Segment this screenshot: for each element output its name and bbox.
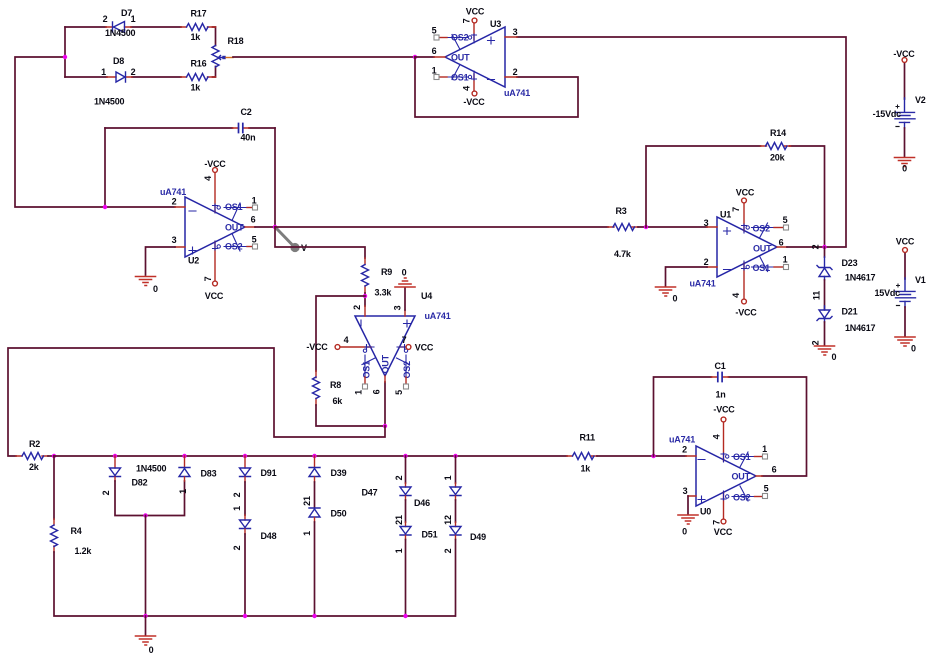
node junction at (105,207) <box>103 205 107 209</box>
ground 0 below V1 <box>895 337 916 354</box>
svg-text:21: 21 <box>394 515 404 525</box>
svg-text:1: 1 <box>101 67 106 77</box>
svg-text:2: 2 <box>352 305 362 310</box>
wire: D39 to D50 <box>314 482 316 508</box>
svg-text:R3: R3 <box>616 206 627 216</box>
svg-text:-VCC: -VCC <box>463 97 485 107</box>
svg-text:-VCC: -VCC <box>204 159 226 169</box>
svg-text:20k: 20k <box>770 153 786 163</box>
power VCC at U1 pin7 <box>731 188 755 234</box>
wire: D21 to ground <box>824 322 826 345</box>
svg-text:D49: D49 <box>470 532 486 542</box>
svg-text:D91: D91 <box>261 468 277 478</box>
svg-text:3.3k: 3.3k <box>375 288 393 298</box>
svg-text:VCC: VCC <box>205 291 224 301</box>
power -VCC at U1 pin4 <box>731 261 757 318</box>
resistor R17 <box>181 9 216 43</box>
wire: U2 pin3 to ground <box>146 247 176 275</box>
wire: junction vertical D7/D8 branches <box>64 27 66 77</box>
resistor R11 <box>567 433 597 474</box>
svg-text:D82: D82 <box>132 478 148 488</box>
diode D48 <box>232 515 277 550</box>
wire: U1 output to node <box>787 246 825 248</box>
svg-text:1N4617: 1N4617 <box>845 323 876 333</box>
svg-text:5: 5 <box>783 215 788 225</box>
svg-text:VCC: VCC <box>896 237 915 247</box>
svg-text:R16: R16 <box>191 59 207 69</box>
svg-text:-VCC: -VCC <box>713 405 735 415</box>
svg-text:1n: 1n <box>716 390 726 400</box>
wire: U3 feedback loop <box>415 57 578 117</box>
svg-text:6: 6 <box>779 238 784 248</box>
diode D7 <box>103 8 136 38</box>
wire: R8 bottom to U4 output node <box>316 405 385 426</box>
svg-text:2: 2 <box>513 67 518 77</box>
svg-text:uA741: uA741 <box>504 88 530 98</box>
svg-text:C2: C2 <box>241 107 252 117</box>
offset pin OS2 (pin5) of U2 <box>224 234 247 252</box>
svg-text:2: 2 <box>682 445 687 455</box>
svg-text:V2: V2 <box>915 95 926 105</box>
power VCC at U3 pin7 <box>462 7 485 44</box>
wire: U4 output down to node <box>384 382 386 426</box>
offset pin OS2 (pin5) of U1 <box>752 223 775 238</box>
ground 0 below V2 <box>895 158 915 174</box>
resistor R2 <box>16 439 48 472</box>
node junction at (406.5,616) <box>403 614 407 618</box>
svg-text:2k: 2k <box>29 462 40 472</box>
svg-text:7: 7 <box>203 276 213 281</box>
wire: D91 to D48 <box>244 482 246 515</box>
internal +/- marks <box>724 228 731 270</box>
svg-text:1k: 1k <box>191 83 202 93</box>
svg-text:U3: U3 <box>490 19 501 29</box>
node junction at U4 output (385,425) <box>383 424 387 428</box>
svg-text:uA741: uA741 <box>160 187 186 197</box>
svg-text:R11: R11 <box>580 433 596 443</box>
wire: R14 feedback loop <box>646 146 825 247</box>
svg-text:R4: R4 <box>71 526 82 536</box>
svg-text:U1: U1 <box>720 210 731 220</box>
node junction at U3 output (415,57) <box>413 55 417 59</box>
svg-text:2: 2 <box>811 340 821 345</box>
svg-text:2: 2 <box>172 197 177 207</box>
svg-text:2: 2 <box>131 67 136 77</box>
svg-text:3: 3 <box>683 486 688 496</box>
power -VCC at U4 pin4 <box>306 335 374 352</box>
svg-text:R18: R18 <box>228 36 244 46</box>
svg-text:-15Vdc: -15Vdc <box>873 109 902 119</box>
svg-text:VCC: VCC <box>736 188 755 198</box>
svg-text:6k: 6k <box>333 396 344 406</box>
wire: D48 to bottom rail <box>244 534 246 616</box>
internal +/- marks <box>361 320 411 327</box>
wire: D82 to D83 bridge <box>115 481 185 516</box>
svg-text:3: 3 <box>704 218 709 228</box>
svg-text:D47: D47 <box>362 488 378 498</box>
zener diode D23 <box>817 257 876 283</box>
diode D49a (top of D49 pair) <box>443 454 461 525</box>
resistor R4 <box>51 519 93 556</box>
svg-text:0: 0 <box>911 344 916 354</box>
capacitor C2 <box>105 107 275 143</box>
svg-text:OUT: OUT <box>753 244 772 254</box>
wire: D8 branch bottom <box>65 67 216 78</box>
diode D49 <box>443 522 486 553</box>
svg-text:4.7k: 4.7k <box>614 249 632 259</box>
svg-text:3: 3 <box>513 27 518 37</box>
svg-text:R14: R14 <box>770 128 786 138</box>
svg-text:D51: D51 <box>422 530 438 540</box>
diode D91 <box>232 454 277 498</box>
svg-text:VCC: VCC <box>714 527 733 537</box>
ground 0 below D21 <box>815 346 837 362</box>
svg-text:6: 6 <box>772 465 777 475</box>
potentiometer R18 <box>212 36 244 67</box>
resistor R9 <box>362 258 393 298</box>
node junction at U1 output (824.5,247) <box>822 245 826 249</box>
svg-text:1: 1 <box>302 531 312 536</box>
svg-text:U2: U2 <box>188 256 199 266</box>
node junction at (54,456) <box>52 454 56 458</box>
wire: D50 to bottom rail <box>314 522 316 616</box>
diode D82 <box>101 454 167 496</box>
wire: left loop from D7/D8 junction to U2 pin2 <box>15 57 175 207</box>
svg-text:R17: R17 <box>191 9 207 19</box>
svg-text:5: 5 <box>764 484 769 494</box>
svg-text:2: 2 <box>811 244 821 249</box>
svg-text:1: 1 <box>783 255 788 265</box>
svg-text:1k: 1k <box>191 32 202 42</box>
svg-text:V: V <box>301 243 307 253</box>
svg-text:5: 5 <box>252 235 257 245</box>
wire: R9 bottom to U4 pin2 <box>364 293 366 306</box>
svg-text:D83: D83 <box>201 469 217 479</box>
svg-text:0: 0 <box>832 352 837 362</box>
power VCC at U4 pin7 <box>397 335 434 353</box>
internal +/- marks <box>698 460 705 504</box>
offset pin OS1 (pin1) of U4 <box>362 355 375 377</box>
op-amp U0 (uA741) <box>669 435 777 517</box>
voltage probe marker <box>277 229 307 253</box>
svg-text:R9: R9 <box>381 267 392 277</box>
internal +/- marks <box>189 211 196 254</box>
svg-text:2: 2 <box>232 545 242 550</box>
svg-text:uA741: uA741 <box>669 435 695 445</box>
dc source V2 <box>873 49 926 128</box>
wire: R18 wiper orange stub <box>226 57 233 59</box>
wire: bridge to bottom-rail ground <box>145 516 147 617</box>
offset pin OS1 (pin1) of U0 <box>732 452 755 467</box>
svg-text:U4: U4 <box>421 291 432 301</box>
wire: D23 to D21 <box>824 280 826 309</box>
wire: V2 to ground <box>904 128 906 157</box>
svg-text:1N4500: 1N4500 <box>105 28 136 38</box>
svg-text:D46: D46 <box>414 498 430 508</box>
svg-text:12: 12 <box>443 515 453 525</box>
wire: D49a to D49 <box>455 500 457 522</box>
power -VCC at U3 pin4 <box>462 71 486 107</box>
svg-text:6: 6 <box>432 46 437 56</box>
wire: U2 output to node <box>255 226 275 228</box>
offset pin OS2 (pin5) of U3 <box>447 35 468 50</box>
wire: node to D23 <box>824 247 826 257</box>
node junction at (646,227) <box>644 225 648 229</box>
svg-text:-VCC: -VCC <box>893 49 915 59</box>
resistor R14 <box>761 128 791 163</box>
wire: V1 to ground <box>904 307 906 337</box>
svg-text:0: 0 <box>673 294 678 304</box>
zener diode D21 <box>817 306 876 333</box>
offset pin OS1 (pin1) of U2 <box>224 203 247 221</box>
wire: C1 feedback loop <box>654 377 807 476</box>
wire: R4 to bottom rail <box>54 552 455 616</box>
power -VCC at U2 pin4 <box>203 159 226 213</box>
svg-text:V1: V1 <box>915 275 926 285</box>
svg-text:VCC: VCC <box>466 7 485 17</box>
svg-text:3: 3 <box>393 305 403 310</box>
svg-text:1: 1 <box>354 390 364 395</box>
svg-text:uA741: uA741 <box>425 311 451 321</box>
capacitor C1 <box>712 361 729 400</box>
op-amp U4 (uA741, rotated, output down) <box>352 291 451 395</box>
svg-text:1: 1 <box>432 66 437 76</box>
svg-text:D39: D39 <box>331 468 347 478</box>
svg-text:40n: 40n <box>241 133 256 143</box>
svg-text:1: 1 <box>762 444 767 454</box>
svg-text:2: 2 <box>232 492 242 497</box>
wire: D51 to bottom rail <box>405 540 407 617</box>
wire: D46 to D51 <box>405 500 407 522</box>
svg-text:4: 4 <box>731 293 741 298</box>
op-amp U3 (uA741, mirrored, output on left) <box>432 19 531 98</box>
op-amp internal marks <box>488 37 495 80</box>
svg-text:OUT: OUT <box>732 472 751 482</box>
svg-text:5: 5 <box>432 26 437 36</box>
svg-text:1N4500: 1N4500 <box>94 97 125 107</box>
svg-text:3: 3 <box>172 235 177 245</box>
svg-text:D50: D50 <box>331 509 347 519</box>
svg-text:7: 7 <box>712 520 722 525</box>
resistor R3 <box>608 206 638 259</box>
svg-text:1: 1 <box>443 475 453 480</box>
power -VCC at U0 pin4 <box>712 405 736 463</box>
svg-text:0: 0 <box>902 164 907 174</box>
wire: node down to R9 branch <box>275 227 365 258</box>
wire: top distribution rail <box>54 455 567 457</box>
svg-text:OUT: OUT <box>225 223 244 233</box>
svg-text:4: 4 <box>712 434 722 439</box>
svg-text:1: 1 <box>232 506 242 511</box>
ground 0 at U0 pin3 <box>678 515 698 537</box>
resistor R8 <box>313 371 344 406</box>
svg-text:1.2k: 1.2k <box>75 546 93 556</box>
svg-text:11: 11 <box>812 291 822 300</box>
offset pin OS2 (pin5) of U0 <box>732 486 755 501</box>
svg-text:D7: D7 <box>121 8 132 18</box>
wire: R3 to U1 pin3 <box>638 226 707 228</box>
svg-text:D48: D48 <box>261 531 277 541</box>
svg-text:2: 2 <box>103 14 108 24</box>
wire: C2 left vertical to U2 pin2 <box>104 128 106 207</box>
svg-text:4: 4 <box>203 176 213 181</box>
svg-text:D21: D21 <box>842 307 858 317</box>
svg-text:7: 7 <box>731 207 741 212</box>
node junction at (653.5,456) <box>651 454 655 458</box>
svg-text:2: 2 <box>443 548 453 553</box>
svg-text:1N4500: 1N4500 <box>136 464 167 474</box>
svg-text:1k: 1k <box>581 464 592 474</box>
resistor R16 <box>181 59 216 93</box>
node junction at U2 output (275,227) <box>273 225 277 229</box>
diode D51 <box>394 522 438 553</box>
diode D83 <box>178 454 217 494</box>
op-amp U2 (uA741) <box>160 187 258 266</box>
svg-text:C1: C1 <box>715 361 726 371</box>
svg-text:0: 0 <box>402 268 407 278</box>
svg-text:OS2: OS2 <box>753 224 771 234</box>
power VCC at U0 pin7 <box>712 491 733 537</box>
offset pin OS2 (pin5) of U4 <box>397 355 410 377</box>
svg-text:0: 0 <box>149 645 154 655</box>
op-amp U1 (uA741) <box>690 210 789 289</box>
node junction at (145.5,515.5) <box>143 513 147 517</box>
svg-text:1: 1 <box>252 196 257 206</box>
svg-text:D8: D8 <box>113 56 124 66</box>
node junction at (65,57) <box>63 55 67 59</box>
node junction at (145.5,616) <box>143 614 147 618</box>
svg-text:5: 5 <box>394 390 404 395</box>
ground 0 at U4 pin3 (inverted) <box>395 268 415 311</box>
wire: U1 pin2 to ground <box>666 267 708 286</box>
svg-text:4: 4 <box>344 335 349 345</box>
svg-text:OUT: OUT <box>451 53 470 63</box>
wire: C2 right vertical to U2 output node <box>274 128 276 227</box>
ground 0 at U1 pin2 <box>656 287 678 304</box>
dc source V1 <box>874 237 925 308</box>
wire: U0 pin3 to ground <box>687 496 689 514</box>
wire: D49 to bottom rail corner <box>455 540 457 617</box>
node junction at (365,296) <box>363 294 367 298</box>
svg-text:15Vdc: 15Vdc <box>874 288 900 298</box>
svg-text:R2: R2 <box>29 439 40 449</box>
svg-text:7: 7 <box>462 18 472 23</box>
svg-text:2: 2 <box>704 257 709 267</box>
svg-text:R8: R8 <box>330 380 341 390</box>
wire: R4 branch <box>53 456 55 519</box>
svg-text:OUT: OUT <box>381 354 391 373</box>
wire: D7 branch top <box>65 27 216 46</box>
svg-text:0: 0 <box>682 527 687 537</box>
ground 0 at U2 pin3 <box>136 277 159 295</box>
svg-text:2: 2 <box>394 475 404 480</box>
wire: node to R8 top <box>316 296 365 371</box>
wire: R11 to U0 pin2 <box>597 455 686 457</box>
svg-text:1: 1 <box>394 548 404 553</box>
wire: R18 wiper to U3 output <box>233 56 415 58</box>
svg-text:D23: D23 <box>842 258 858 268</box>
svg-text:6: 6 <box>372 389 382 394</box>
svg-text:4: 4 <box>462 86 472 91</box>
offset pin OS1 (pin1) of U1 <box>752 256 775 272</box>
wire: big feedback loop to R2 <box>8 348 385 456</box>
svg-text:0: 0 <box>153 284 158 294</box>
svg-text:7: 7 <box>402 335 407 345</box>
svg-text:U0: U0 <box>700 507 711 517</box>
offset pin OS1 (pin1) of U3 <box>447 65 468 80</box>
ground 0 at bottom rail <box>136 616 156 655</box>
diode D8 <box>94 56 136 107</box>
diode D50 <box>302 508 347 536</box>
wire: U3 pin3 to far-right vertical down to U1 output node <box>517 37 846 247</box>
node junction at (245,616) <box>243 614 247 618</box>
wire: U2 output node to R3 <box>275 226 608 228</box>
svg-text:2: 2 <box>101 490 111 495</box>
diode D46 <box>394 454 430 525</box>
svg-text:-VCC: -VCC <box>735 308 757 318</box>
svg-text:1: 1 <box>178 489 188 494</box>
wire: R2 to rail <box>48 455 54 457</box>
node junction at (314.5,616) <box>312 614 316 618</box>
power VCC at U2 pin7 <box>203 241 224 301</box>
svg-text:21: 21 <box>302 496 312 506</box>
svg-text:6: 6 <box>251 215 256 225</box>
svg-text:VCC: VCC <box>415 343 434 353</box>
svg-text:1N4617: 1N4617 <box>845 273 876 283</box>
svg-text:-VCC: -VCC <box>306 342 328 352</box>
diode D39 <box>302 454 347 506</box>
wire: U3 OUT stub <box>415 56 434 58</box>
svg-text:uA741: uA741 <box>690 279 716 289</box>
